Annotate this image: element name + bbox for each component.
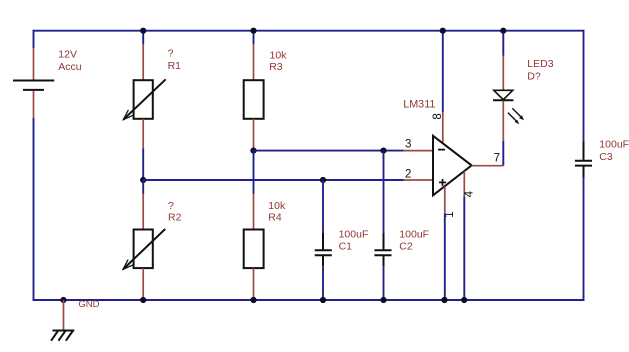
resistor R4 top pin — [253, 194, 255, 230]
battery B1 plates — [13, 81, 54, 90]
wire left rail upper — [33, 30, 35, 49]
resistor R1 body — [123, 79, 165, 119]
ground symbol — [51, 331, 74, 341]
op-amp U1 pin 1 stub — [444, 186, 446, 213]
resistor R2 body — [123, 229, 165, 269]
svg-text:8: 8 — [432, 113, 444, 119]
svg-text:C3: C3 — [599, 151, 613, 163]
wire C2 top — [383, 151, 385, 234]
node junction top pin8 — [440, 28, 446, 34]
op-amp U1 pin 4 stub — [463, 171, 465, 196]
node junction ground tap — [60, 297, 66, 303]
wire R4 column — [253, 151, 255, 194]
svg-text:12V: 12V — [58, 49, 77, 61]
svg-text:LM311: LM311 — [403, 99, 435, 111]
battery B1 bottom lead — [33, 91, 35, 118]
svg-text:7: 7 — [494, 153, 500, 165]
wire top rail — [33, 30, 585, 32]
wire LED top drop — [502, 31, 504, 56]
wire row2 drop to R2 — [142, 180, 144, 194]
wire R3 top drop — [253, 31, 255, 45]
capacitor C1 — [315, 233, 332, 266]
wire pin4 to ground rail — [463, 196, 465, 300]
svg-text:Accu: Accu — [58, 61, 82, 73]
wire R1 top drop — [142, 31, 144, 45]
node junction bottom C2 — [380, 297, 386, 303]
svg-text:100uF: 100uF — [339, 229, 369, 241]
op-amp U1 LM311 triangle — [433, 136, 472, 196]
node junction row3 C2 tap — [380, 148, 386, 154]
wire C2 bottom — [383, 266, 385, 300]
wire pin1 to ground rail — [444, 214, 446, 301]
svg-text:R3: R3 — [269, 61, 283, 73]
wire R1 to row2 — [142, 149, 144, 181]
svg-text:100uF: 100uF — [399, 229, 429, 241]
node junction top LED — [500, 28, 506, 34]
battery B1 top lead — [33, 48, 35, 80]
node junction bottom C1 — [320, 297, 326, 303]
svg-text:R1: R1 — [168, 60, 182, 72]
wire pin8 drop — [442, 31, 444, 112]
node junction row2 C1 tap — [320, 177, 326, 183]
wire right rail upper — [583, 30, 585, 142]
node junction bottom pin1 — [441, 297, 447, 303]
svg-text:10k: 10k — [268, 200, 286, 212]
svg-text:?: ? — [168, 200, 174, 212]
wire bottom rail — [33, 299, 585, 301]
resistor R2 bottom pin — [142, 268, 144, 300]
capacitor C3 — [575, 142, 592, 178]
wire row2 to comparator — [143, 179, 403, 181]
LED D? symbol — [493, 90, 524, 124]
node junction top R1 — [140, 28, 146, 34]
wire C1 bottom — [322, 266, 324, 300]
svg-text:LED3: LED3 — [527, 58, 553, 70]
LED D? anode lead — [502, 56, 504, 90]
svg-text:C2: C2 — [399, 241, 413, 253]
svg-text:?: ? — [168, 48, 174, 60]
svg-text:C1: C1 — [339, 241, 353, 253]
wire C1 top — [322, 180, 324, 234]
resistor R4 body — [244, 230, 264, 269]
resistor R3 body — [244, 80, 264, 119]
svg-text:4: 4 — [464, 190, 476, 197]
svg-text:R4: R4 — [268, 212, 282, 224]
svg-text:100uF: 100uF — [599, 138, 629, 150]
svg-text:D?: D? — [527, 70, 541, 82]
resistor R4 bottom pin — [253, 268, 255, 300]
resistor R3 bottom pin — [253, 119, 255, 151]
capacitor C2 — [374, 233, 391, 266]
node junction top R3 — [250, 28, 256, 34]
wire row3 to comparator — [254, 150, 404, 152]
op-amp U1 pin 3 stub — [404, 150, 434, 152]
LED D? cathode lead — [502, 101, 504, 141]
resistor R2 top pin — [142, 194, 144, 230]
node junction row2 left — [140, 177, 146, 183]
node junction bottom pin4 — [461, 297, 467, 303]
svg-text:10k: 10k — [270, 49, 288, 61]
resistor R3 top pin — [253, 44, 255, 80]
node junction row3 R3/R4 — [250, 148, 256, 154]
op-amp U1 pin 7 stub — [472, 165, 504, 167]
resistor R1 top pin — [142, 44, 144, 80]
op-amp U1 pin 2 stub — [404, 179, 434, 181]
svg-text:3: 3 — [405, 139, 411, 151]
wire left rail lower — [33, 118, 35, 301]
wire right rail lower — [583, 177, 585, 301]
svg-text:R2: R2 — [168, 212, 182, 224]
wire LED to pin7 — [502, 141, 504, 166]
resistor R1 bottom pin — [142, 119, 144, 149]
svg-text:2: 2 — [405, 169, 411, 181]
svg-text:GND: GND — [78, 299, 99, 310]
op-amp U1 pin 8 stub — [442, 112, 444, 143]
svg-text:1: 1 — [444, 211, 456, 217]
ground stem — [63, 300, 65, 331]
node junction bottom R2 — [140, 297, 146, 303]
node junction bottom R4 — [250, 297, 256, 303]
